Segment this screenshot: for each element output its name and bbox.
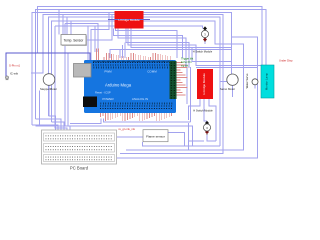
svg-text:ANALOG IN: ANALOG IN [132,97,148,101]
wire over red box [108,19,150,21]
svg-text:Trigger blk: Trigger blk [181,57,194,61]
wire nest 3 big loop to bottom D [32,13,258,158]
wire left drop 4 [52,122,65,138]
wire pin riser 8 [94,26,96,52]
svg-text:Under Disp: Under Disp [279,59,293,63]
wire nest 6 loop to bottom B [52,21,244,150]
wire temp feed 2 [62,15,64,35]
wire temp feed 3 [66,17,68,34]
wire servo top vertical [230,37,232,74]
wire hbridge left col 1 [186,67,188,104]
wire pin stub b1 [119,49,121,58]
wire under-board vertical 2 [67,53,69,126]
wire piezo bottom bracket [207,135,216,141]
svg-text:Arduino Mega: Arduino Mega [105,83,132,88]
wire temp feed 4 [70,21,72,35]
arduino bottom pin header [100,106,172,110]
wire bottom line A flame to switch label [143,142,220,146]
wire hbridge down mid to piezo [204,99,207,121]
wire waterservo stub [254,85,256,89]
wire hbridge left col 2 [190,67,192,122]
wire nest 2 to lamp [35,10,266,119]
wire long under-arduino run [35,126,192,146]
wire temp to board [86,15,112,40]
wire hbridge drop C [118,29,186,69]
wire usb feed 1 [87,26,89,64]
svg-text:Monitor Lamp: Monitor Lamp [265,73,269,91]
svg-text:PWM: PWM [104,69,112,73]
green pin labels [181,57,194,68]
wire hbridge drop D [126,29,189,69]
arduino bottom pin ticks [101,103,173,105]
wire pin stub b3 [124,43,126,58]
arduino right pin header [170,61,177,99]
piezo buzzer bottom LS2 [203,121,210,135]
svg-text:re_gn-mk_mk: re_gn-mk_mk [119,127,136,131]
svg-text:POWER: POWER [102,97,114,101]
wire servo top feed [192,47,231,61]
monitor lamp (cyan) [261,65,274,98]
wire bottom pin left elbow [70,119,101,124]
wire hbridge down left [189,99,201,120]
wire hbridge drop E to lamp [128,29,261,66]
svg-text:H-brdge Module: H-brdge Module [202,73,206,95]
svg-text:PC Board: PC Board [70,166,89,171]
wire left drop 6 [69,126,71,137]
piezo buzzer top LS1 [201,27,208,43]
H bridge module top (red) [108,11,150,29]
wire temp feed 1 [58,10,60,35]
wire bottom pin right long elbow [104,119,191,123]
wire hbridge drop B [113,29,182,59]
svg-text:Servo Motor: Servo Motor [220,87,235,91]
red stub wires bottom pins [101,113,172,121]
svg-text:IC-mik: IC-mik [10,71,19,75]
wire servo left exit [220,81,227,83]
wire flame right elbow [168,133,185,146]
wire usb feed 2 [91,13,109,64]
svg-text:Flame sensor: Flame sensor [146,135,165,139]
wire under-board vertical 1 [64,24,66,127]
usb connector [74,64,92,78]
wire hbridge drop F [131,29,232,48]
wire left drop 2 [35,119,61,138]
ic mic icon [5,76,8,80]
wire dark mic run [6,53,90,77]
wire board to flame [117,136,143,138]
pc board (breadboard) [42,130,117,171]
wire hbridge drop A [116,29,177,59]
wire below stepper label [38,91,40,127]
stepper motor M1 [40,74,57,91]
wire servo bottom stub [232,85,234,97]
arduino mega U1 [74,60,177,113]
wire stepper bottom stub [48,85,50,116]
svg-text:H Switch Module: H Switch Module [193,108,213,112]
wire nest inner to piezo [55,26,203,29]
svg-text:H Switch Module: H Switch Module [193,49,213,53]
wire left drop 5 [55,26,67,138]
wire hbridge down right [209,99,216,141]
water servo M3 [245,73,258,88]
svg-text:COMM: COMM [147,69,157,73]
wire left drop 1 [32,125,58,138]
flame sensor FS1 [143,130,168,142]
wire lamp feed 2 [196,67,258,69]
svg-text:H brdge Module: H brdge Module [118,18,140,22]
wire piezo top drop [204,40,206,44]
red annotation labels [9,59,293,132]
power jack [83,97,97,108]
arduino top pin number ticks [93,61,172,69]
H bridge module right (red) [197,69,213,99]
wire nest outer to lamp [38,7,262,65]
wire pin long line G [110,49,231,58]
svg-text:Temp. Sensor: Temp. Sensor [64,39,85,43]
svg-text:StepperMotor: StepperMotor [40,87,57,91]
servo motor M2 [220,74,238,91]
red stub wires top pins [97,49,171,61]
red stub wires right pins [177,63,188,96]
temp sensor TS1 [61,35,87,47]
wire pin stub b2 [122,45,124,58]
wire nest 5 mid vertical [48,17,219,146]
wire stepper left elbow [31,72,43,74]
arduino top pin header [93,62,172,66]
wire pin riser 9 [65,24,98,53]
wire nest 4 loop to bottom C [43,15,223,154]
svg-text:Water Servo: Water Servo [245,73,249,88]
wire left drop 3 [48,116,55,138]
wire bracket left [189,140,205,142]
svg-text:sig blk: sig blk [181,64,189,68]
svg-text:Reset - ICSP: Reset - ICSP [95,90,111,94]
svg-text:Echo Pin: Echo Pin [181,60,192,64]
wire flame down [188,123,190,150]
svg-text:S-Pin m1: S-Pin m1 [9,64,21,68]
